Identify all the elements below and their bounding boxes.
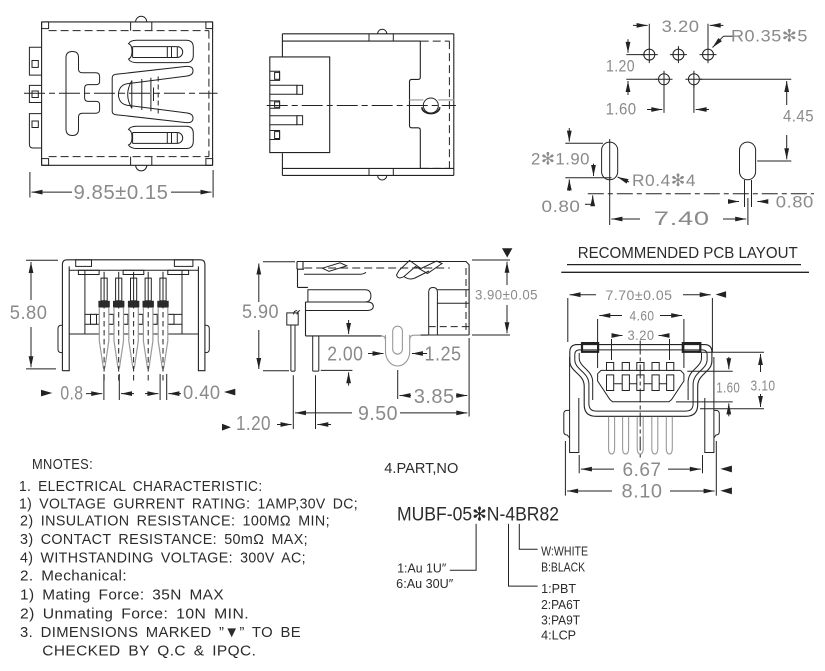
- view D shell tabs: [582, 343, 700, 352]
- view C height dimension 5.90: [242, 262, 295, 371]
- view C pin length dimension 2.00: [321, 320, 384, 386]
- view C crimp wave small: [322, 263, 346, 272]
- view C crimp wave large: [397, 261, 443, 279]
- svg-text:4.45: 4.45: [783, 107, 814, 126]
- svg-text:2) INSULATION RESISTANCE: 100M: 2) INSULATION RESISTANCE: 100MΩ MIN;: [20, 513, 330, 530]
- svg-text:1:PBT: 1:PBT: [541, 582, 576, 596]
- svg-text:MNOTES:: MNOTES:: [32, 456, 93, 473]
- pcb hole 4: [656, 71, 673, 88]
- view C body outline: [297, 262, 469, 336]
- notes text block: [19, 456, 358, 660]
- view A top contact window: [129, 40, 194, 62]
- pcb dimension 0.80 left: [542, 195, 593, 216]
- view A left comb tabs: [29, 47, 41, 148]
- svg-text:5.80: 5.80: [10, 303, 48, 324]
- svg-text:2.00: 2.00: [327, 344, 363, 366]
- svg-text:3.20: 3.20: [662, 17, 700, 36]
- svg-text:1:Au 1U″: 1:Au 1U″: [397, 562, 447, 576]
- part number code: [397, 505, 559, 526]
- svg-text:7.40: 7.40: [654, 209, 710, 230]
- svg-text:9.85±0.15: 9.85±0.15: [74, 182, 169, 204]
- pcb layout title: [561, 245, 809, 272]
- svg-text:B:BLACK: B:BLACK: [541, 561, 586, 575]
- view E contact shelf: [85, 314, 182, 324]
- view C board-lock slot and tab: [382, 326, 428, 366]
- view D pin 4: [652, 417, 658, 454]
- view A width dimension 9.85: [30, 170, 213, 204]
- view D dimension 3.20: [612, 328, 670, 360]
- view C dimension 9.50: [293, 375, 467, 429]
- svg-text:2✻1.90: 2✻1.90: [531, 150, 590, 169]
- view E pin 2: [113, 272, 124, 381]
- view A bottom tab and bump: [131, 157, 152, 171]
- svg-text:3. DIMENSIONS MARKED ”▼” TO BE: 3. DIMENSIONS MARKED ”▼” TO BE: [20, 624, 301, 641]
- svg-text:3) CONTACT RESISTANCE: 50mΩ MA: 3) CONTACT RESISTANCE: 50mΩ MAX;: [20, 531, 308, 548]
- svg-text:5.90: 5.90: [242, 302, 279, 323]
- svg-text:1.20: 1.20: [606, 57, 635, 76]
- view E pin 4: [143, 272, 154, 381]
- svg-text:0.80: 0.80: [542, 197, 581, 216]
- pcb dimension 3.20: [633, 17, 723, 46]
- pcb slot left: [602, 139, 618, 183]
- svg-text:1.25: 1.25: [425, 344, 462, 366]
- view D dimension 3.10: [698, 352, 776, 409]
- svg-text:1.60: 1.60: [606, 100, 637, 119]
- view B shell body: [282, 29, 453, 180]
- view D center line: [639, 341, 641, 460]
- view C rear shield block: [421, 268, 470, 335]
- svg-text:8.10: 8.10: [622, 482, 663, 503]
- svg-text:0.8: 0.8: [60, 384, 83, 405]
- svg-text:3.85: 3.85: [414, 386, 455, 408]
- svg-text:R0.4✻4: R0.4✻4: [632, 171, 696, 190]
- view D outer shell: [570, 345, 712, 417]
- view D contact 3: [637, 363, 644, 391]
- view E housing outline: [62, 260, 205, 371]
- view D contact 5: [667, 363, 674, 391]
- view E pin 1: [98, 272, 109, 381]
- view C checked dimension 3.90: [472, 248, 540, 335]
- part number leader color: [519, 524, 588, 575]
- view E side ears: [58, 325, 209, 352]
- svg-text:RECOMMENDED PCB LAYOUT: RECOMMENDED PCB LAYOUT: [578, 245, 798, 262]
- svg-text:0.80: 0.80: [776, 193, 814, 212]
- view E pin 3: [128, 272, 139, 381]
- svg-text:2) Unmating Force: 10N MIN.: 2) Unmating Force: 10N MIN.: [20, 605, 249, 622]
- pcb dimension 1.20: [606, 39, 657, 95]
- view C front pin and crimp: [287, 311, 300, 372]
- svg-text:1.60: 1.60: [716, 380, 740, 397]
- view B plastic housing block: [270, 57, 330, 153]
- view A left contact spring: [66, 52, 100, 136]
- svg-text:3.20: 3.20: [628, 328, 655, 343]
- view D pin 1: [609, 417, 615, 454]
- view D contact 1: [607, 363, 614, 391]
- view D dimension 7.70: [568, 287, 726, 352]
- pcb dimension 7.40: [610, 183, 748, 230]
- svg-text:1.20: 1.20: [236, 413, 271, 435]
- view A hidden lines: [49, 31, 209, 157]
- view C dimension 1.20 with marker: [222, 413, 331, 435]
- view D contact 2: [622, 363, 629, 391]
- view B center line: [267, 105, 456, 107]
- view C insulator bars: [306, 290, 382, 336]
- svg-text:R0.35✻5: R0.35✻5: [731, 27, 808, 46]
- view D dimension 8.10: [565, 441, 732, 503]
- svg-text:W:WHITE: W:WHITE: [541, 545, 588, 559]
- pcb hole 2: [670, 46, 687, 63]
- svg-text:4.60: 4.60: [630, 309, 655, 324]
- pcb dimension 1.60: [606, 84, 709, 119]
- view A top tab and bump: [131, 16, 152, 30]
- view D solder legs: [564, 357, 720, 453]
- svg-text:2. Mechanical:: 2. Mechanical:: [20, 568, 127, 585]
- svg-text:4.PART,NO: 4.PART,NO: [384, 460, 458, 477]
- pcb leader R0.35: [713, 27, 809, 48]
- svg-text:0.40: 0.40: [183, 383, 221, 404]
- view D dimension 4.60: [598, 309, 684, 369]
- pcb hole 1: [641, 46, 658, 63]
- view B rear contour with locking dimple: [410, 41, 455, 168]
- pcb center line: [588, 193, 814, 195]
- view D pin 3: [637, 417, 643, 454]
- pcb dimension 2x1.90: [531, 128, 612, 191]
- view D dimension 6.67: [579, 455, 732, 481]
- view C tab width dimension 1.25: [412, 344, 462, 366]
- svg-text:3.90±0.05: 3.90±0.05: [475, 287, 538, 303]
- svg-text:3:PA9T: 3:PA9T: [541, 614, 580, 628]
- pcb hole 5: [685, 71, 702, 88]
- svg-text:6.67: 6.67: [623, 460, 662, 481]
- view C dimension 3.85: [398, 338, 469, 417]
- svg-text:1) VOLTAGE GURRENT RATING: 1AM: 1) VOLTAGE GURRENT RATING: 1AMP,30V DC;: [19, 496, 358, 513]
- svg-text:1. ELECTRICAL CHARACTERISTIC:: 1. ELECTRICAL CHARACTERISTIC:: [19, 478, 263, 495]
- pcb hole 3: [700, 46, 717, 63]
- view A shell outline: [42, 22, 213, 165]
- svg-text:1) Mating Force: 35N MAX: 1) Mating Force: 35N MAX: [20, 587, 224, 604]
- pcb dimension 0.80 right: [729, 193, 814, 212]
- svg-text:6:Au 30U″: 6:Au 30U″: [396, 577, 454, 591]
- part number title: [384, 460, 458, 477]
- svg-text:4) WITHSTANDING VOLTAGE: 300V: 4) WITHSTANDING VOLTAGE: 300V AC;: [20, 550, 306, 567]
- part number leader plating: [396, 524, 476, 591]
- part number leader material: [509, 524, 581, 643]
- view B hidden lines: [421, 41, 450, 168]
- pcb dimension 4.45: [700, 79, 816, 161]
- view D contact 4: [652, 363, 659, 391]
- view D pin 5: [666, 417, 672, 454]
- pcb leader R0.4: [618, 171, 697, 190]
- svg-text:3.10: 3.10: [751, 378, 776, 395]
- view E pin 5: [157, 272, 168, 381]
- view A center line: [24, 92, 218, 94]
- view D pin 2: [623, 417, 629, 454]
- view E height dimension 5.80: [8, 260, 58, 369]
- view A bottom contact window: [129, 126, 194, 148]
- svg-text:CHECKED BY Q.C & IPQC.: CHECKED BY Q.C & IPQC.: [42, 643, 256, 660]
- view D tongue cavity: [598, 370, 684, 401]
- view C second pin: [313, 336, 319, 371]
- svg-text:2:PA6T: 2:PA6T: [541, 598, 580, 612]
- pcb slot right: [740, 142, 756, 207]
- view E pitch dimension 0.8 and width 0.40: [41, 374, 235, 405]
- svg-text:4:LCP: 4:LCP: [541, 629, 576, 643]
- view A center funnel spring: [112, 66, 193, 122]
- svg-text:7.70±0.05: 7.70±0.05: [606, 287, 673, 303]
- svg-text:9.50: 9.50: [358, 403, 398, 425]
- svg-text:MUBF-05✻N-4BR82: MUBF-05✻N-4BR82: [397, 505, 559, 526]
- view D dimension 1.60: [676, 357, 740, 416]
